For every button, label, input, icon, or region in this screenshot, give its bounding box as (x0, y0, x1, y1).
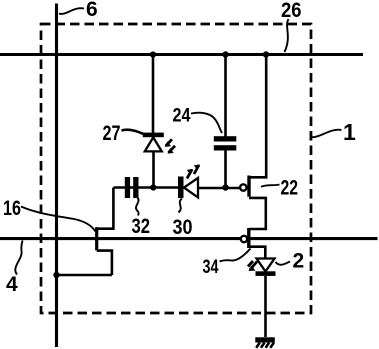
svg-text:16: 16 (3, 197, 21, 220)
junction dot (power line / transistor 22 drain) (263, 51, 269, 57)
wire: transistor 16 source to data line 6 (57, 274, 112, 277)
svg-text:6: 6 (86, 0, 98, 21)
leader line of label 6 (59, 8, 84, 14)
leader line of label 16 (21, 207, 96, 232)
light arrow of diode 2 (248, 261, 257, 271)
junction dot (gate node / capacitor 24) (222, 184, 228, 190)
leader line of label 22 (261, 185, 280, 187)
wire: diode 27 to storage node (152, 152, 155, 188)
svg-text:30: 30 (173, 216, 193, 239)
svg-text:32: 32 (132, 215, 151, 238)
capacitor 32 (125, 177, 139, 198)
capacitor 24 (214, 55, 237, 188)
svg-text:4: 4 (6, 273, 18, 296)
svg-text:27: 27 (103, 122, 121, 145)
transistor 34 (switching transistor to EL element) (241, 228, 265, 258)
diode 27 (photodiode) (143, 133, 164, 152)
scan line 4 (horizontal wire) (0, 237, 378, 240)
leader line of label 4 (15, 241, 22, 275)
leader line of label 1 (311, 130, 342, 141)
svg-text:22: 22 (281, 177, 299, 200)
junction dot (data line / transistor 16) (53, 272, 59, 278)
wire: diode 30 to gate node of transistor 22 (198, 187, 241, 190)
transistor 22 (drive transistor) (240, 55, 266, 229)
svg-text:26: 26 (281, 0, 302, 22)
leader line of label 30 (179, 199, 183, 213)
svg-text:2: 2 (293, 250, 305, 273)
power supply line 26 (horizontal wire) (0, 53, 363, 56)
leader line of label 34 (220, 249, 251, 262)
diode 2 (EL element) (256, 259, 276, 338)
svg-text:24: 24 (173, 106, 191, 127)
data line 6 (vertical wire) (55, 4, 58, 348)
ground (255, 337, 274, 348)
leader line of label 24 (191, 113, 222, 133)
svg-text:1: 1 (343, 119, 356, 145)
junction dot (storage node at diode 27) (150, 184, 156, 190)
leader line of label 26 (285, 19, 289, 52)
light arrows of diode 30 (187, 165, 199, 179)
diode 30 (light emitting diode) (178, 177, 198, 199)
junction dot (power line / capacitor 24 branch) (222, 51, 228, 57)
leader line of label 2 (276, 262, 291, 265)
leader line of label 27 (122, 130, 147, 135)
light arrows of diode 27 (166, 139, 176, 153)
wire: power line to diode 27 (152, 55, 155, 134)
wire: capacitor 32 to storage node (114, 186, 181, 189)
svg-text:34: 34 (203, 257, 219, 278)
leader line of label 32 (136, 198, 139, 216)
transistor 16 (switching transistor on data line) (97, 188, 114, 276)
junction dot (power line / diode 27 branch) (150, 51, 156, 57)
dashed pixel boundary 1 (41, 24, 311, 313)
